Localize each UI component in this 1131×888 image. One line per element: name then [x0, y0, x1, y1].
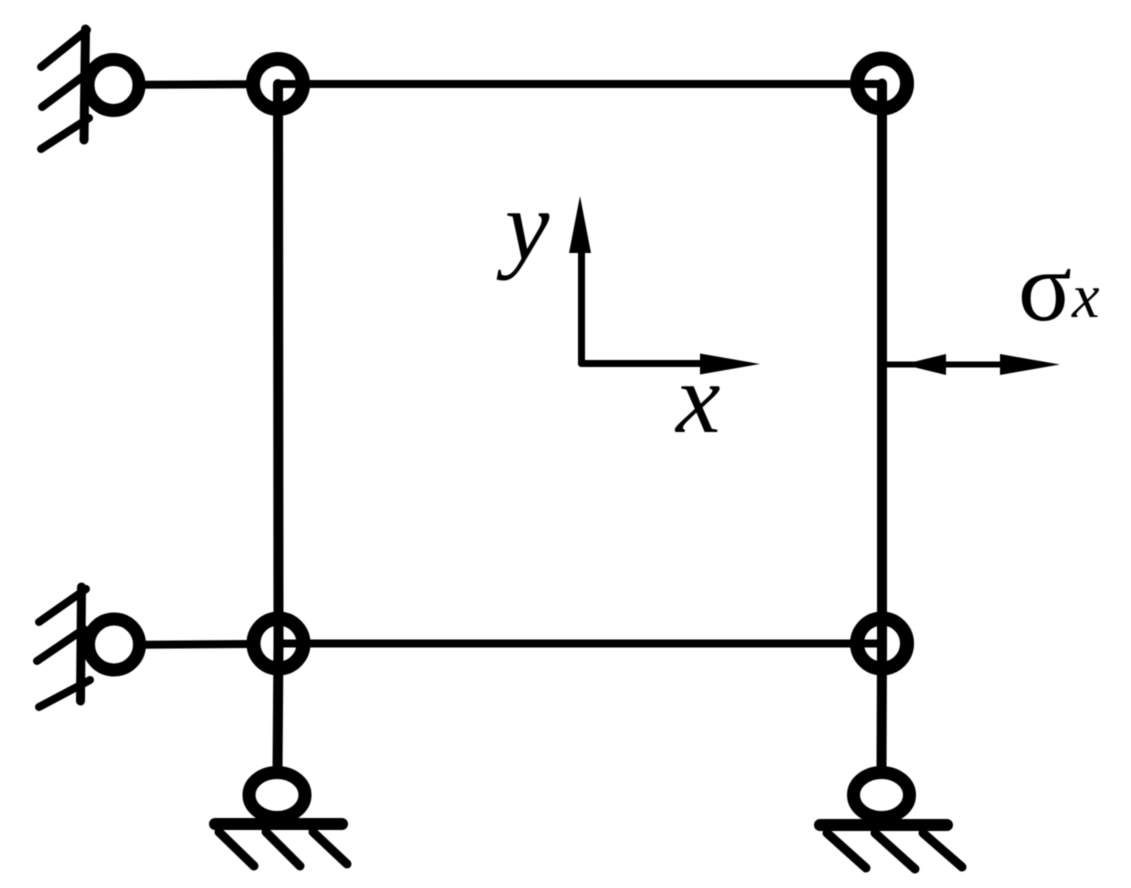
stress arrow sigma-x (double headed)	[884, 354, 1060, 375]
svg-text:y: y	[496, 170, 550, 281]
support: upper-left wall pin	[41, 29, 139, 149]
wire right edge of plate	[877, 84, 887, 644]
node A hinge circle (top-left corner)	[253, 59, 303, 109]
support: lower-left wall pin	[37, 587, 140, 707]
support: lower-right ground pin	[820, 773, 962, 870]
support: lower-left ground pin	[215, 773, 347, 867]
wire bottom edge of plate	[279, 640, 883, 648]
wire stem from node C to lower-left ground pin	[278, 644, 279, 773]
node D hinge circle (bottom-right corner)	[857, 619, 907, 669]
axis y arrow	[569, 196, 591, 364]
wire link from upper-left wall pin to node A	[140, 80, 247, 89]
node B hinge circle (top-right corner)	[857, 59, 907, 109]
svg-text:x: x	[674, 343, 720, 454]
node C hinge circle (bottom-left corner)	[254, 619, 304, 669]
axis x arrow	[582, 354, 761, 375]
svg-text:σ: σ	[1018, 231, 1072, 342]
wire stem from node D to lower-right ground pin	[877, 644, 888, 772]
wire top edge of plate	[278, 80, 882, 88]
wire left edge of plate	[273, 84, 284, 644]
wire link from lower-left wall pin to node C	[141, 640, 248, 649]
svg-text:x: x	[1071, 263, 1100, 331]
